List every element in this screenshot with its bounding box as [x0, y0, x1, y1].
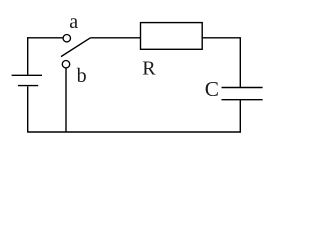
capacitor C top plate: [222, 87, 263, 89]
svg-text:C: C: [205, 77, 219, 101]
switch contact a: [63, 35, 70, 42]
svg-text:b: b: [77, 65, 87, 87]
wire bottom horizontal: [27, 131, 241, 133]
switch blade (pole arm between a and b): [61, 38, 90, 57]
wire top-left horizontal (corner to switch contact a): [27, 37, 63, 39]
battery B1 long plate (+): [12, 74, 42, 76]
wire from switch contact b down to bottom wire: [65, 68, 67, 132]
wire capacitor bottom plate to bottom-right corner: [239, 100, 241, 133]
wire battery to bottom-left corner: [27, 86, 29, 132]
wire right vertical (top-right corner to capacitor top plate): [239, 37, 241, 87]
switch contact b: [62, 60, 69, 67]
svg-text:R: R: [142, 57, 156, 79]
svg-text:a: a: [69, 11, 78, 33]
battery B1 short plate (-): [18, 85, 38, 87]
wire left vertical (corner down to battery top plate): [27, 37, 29, 74]
wire switch pole to resistor left lead: [90, 37, 140, 39]
wire resistor right lead to top-right corner: [202, 37, 240, 39]
resistor R body: [141, 23, 203, 50]
capacitor C bottom plate: [222, 99, 263, 101]
